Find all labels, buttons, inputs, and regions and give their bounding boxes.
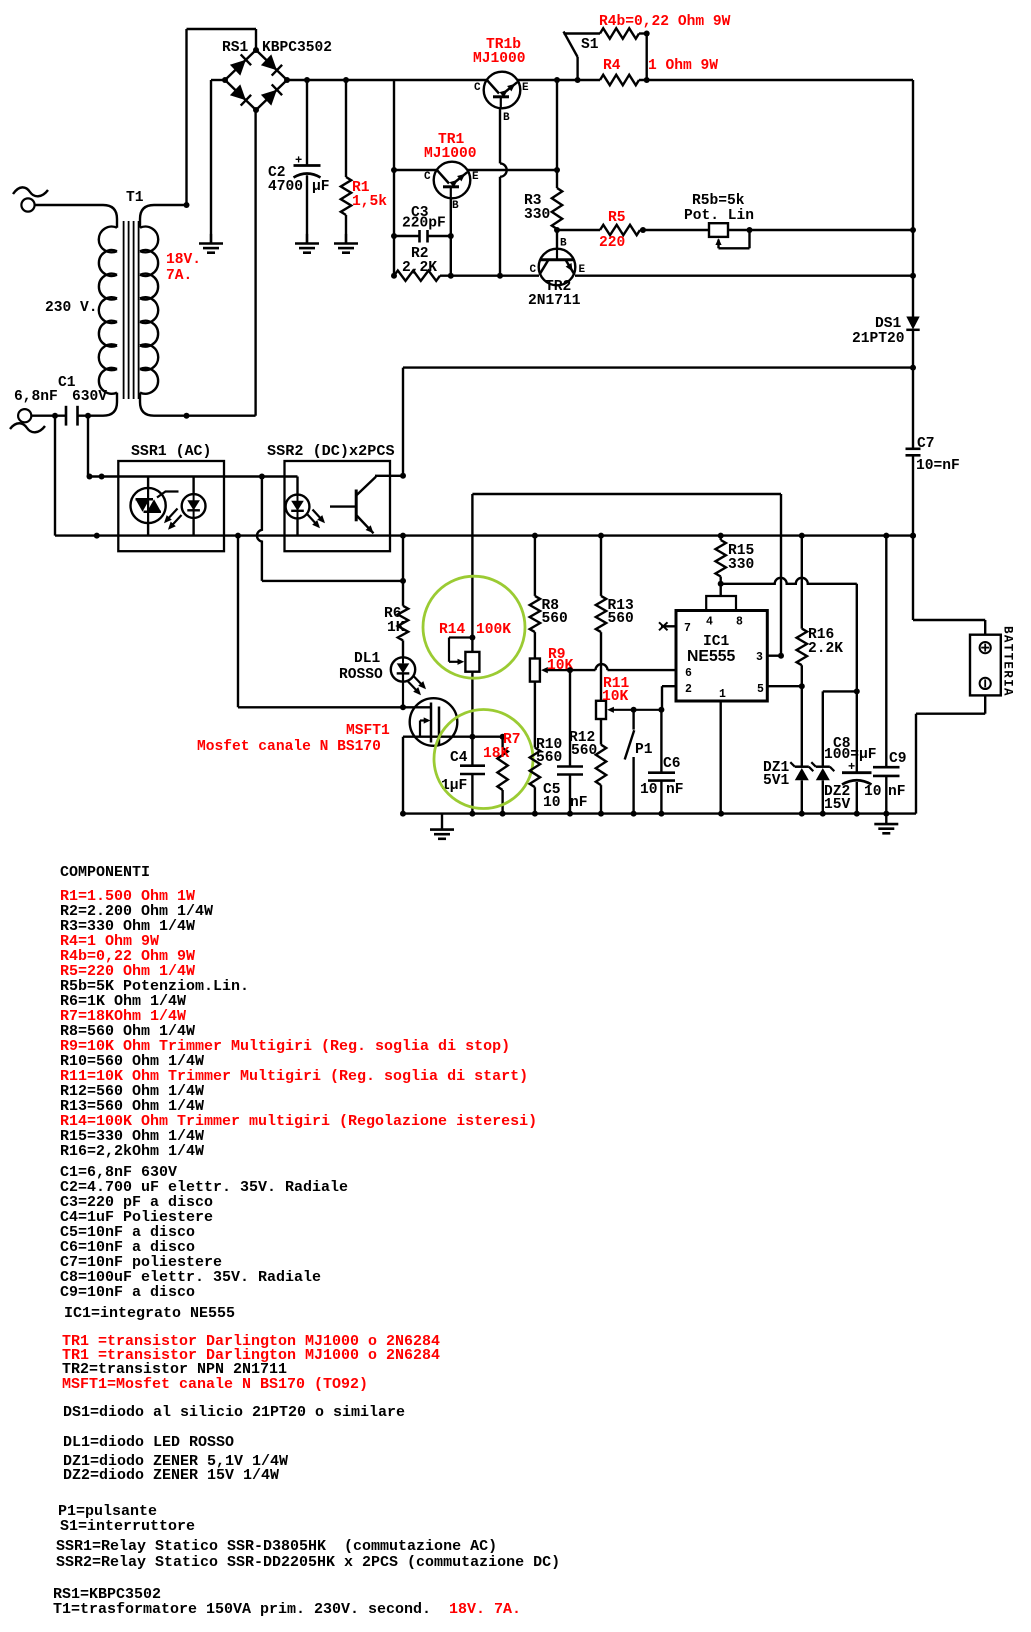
resistor R8 — [530, 536, 540, 659]
label SSR2 — [267, 442, 395, 460]
bridge rectifier RS1 — [222, 47, 290, 113]
pin 4 — [706, 616, 713, 629]
ground (main) — [430, 814, 454, 839]
label TR2 pins — [530, 238, 586, 277]
label R14 — [439, 622, 511, 638]
wire SSR1 control — [257, 477, 406, 584]
label R13 value — [608, 598, 635, 627]
label R8 value — [542, 598, 568, 627]
label TR1 pins — [424, 171, 479, 212]
label IC1 — [703, 634, 730, 650]
label S1 — [581, 37, 599, 53]
LED (SSR1 input) — [164, 477, 206, 536]
ground (C2) — [295, 234, 319, 253]
pin 1 — [719, 688, 726, 814]
label R5 — [599, 210, 626, 251]
wire mains to SSR1 bottom — [55, 416, 118, 539]
label C6 — [640, 756, 684, 798]
label DZ2 — [824, 784, 851, 813]
relay SSR1 box — [118, 461, 224, 551]
label C9 — [864, 751, 907, 800]
label BATTERIA — [1001, 626, 1015, 697]
label NE555 — [687, 648, 736, 665]
wire R9 to R10 — [534, 682, 536, 748]
wire bridge minus — [211, 80, 225, 244]
wire SSR1 rails — [118, 474, 916, 539]
trimmer R14 — [449, 635, 479, 672]
resistor R3 — [552, 188, 562, 233]
label R16 value — [808, 627, 843, 657]
wire charge line — [403, 368, 913, 476]
highlight circle R14 — [423, 576, 525, 678]
label RS1 KBPC3502 — [222, 40, 332, 56]
label C8 — [824, 736, 877, 774]
label R12 value — [569, 730, 597, 759]
label R11 — [602, 676, 630, 705]
transformer T1 — [35, 110, 256, 419]
capacitor C2 — [294, 80, 321, 244]
ground (R1) — [334, 234, 358, 253]
label T1 secondary — [166, 252, 201, 284]
resistor R6 — [398, 606, 408, 658]
ground (bridge minus) — [199, 234, 223, 253]
wire R14 to C4 — [471, 672, 473, 766]
battery BATTERIA — [970, 635, 1001, 696]
label C5 — [543, 782, 588, 811]
capacitor C3 — [394, 230, 454, 243]
wire TR2 emitter line — [575, 273, 916, 279]
wire output rail — [910, 80, 985, 635]
capacitor C6 — [648, 710, 675, 814]
label T1 primary — [45, 300, 98, 316]
label R4b — [599, 14, 731, 30]
wire +V to TR1 — [391, 80, 397, 279]
wire gate run — [238, 536, 406, 711]
pin 8 — [736, 616, 743, 629]
pin 6 — [685, 667, 692, 680]
label R2 value — [402, 246, 437, 276]
wire output to R3 — [556, 80, 558, 188]
label R4 — [603, 58, 718, 74]
resistor R7 — [497, 737, 507, 814]
label C7 — [916, 436, 960, 474]
wire TR1b base — [497, 108, 507, 279]
label T1 — [126, 190, 144, 206]
label SSR1 — [131, 444, 211, 460]
label R3 value — [524, 193, 550, 223]
capacitor C9 — [873, 536, 900, 814]
trimmer R9 — [530, 659, 570, 682]
capacitor C5 — [557, 670, 583, 814]
label R9 — [547, 647, 574, 674]
label P1 — [635, 742, 653, 758]
pin 2 — [662, 683, 692, 710]
wire mains to SSR1 top — [87, 416, 119, 480]
wire battery return — [916, 695, 985, 813]
capacitor C1 — [31, 406, 91, 426]
resistor R2 — [394, 271, 539, 281]
mosfet MSFT1 — [403, 698, 503, 746]
relay SSR2 box — [285, 461, 391, 551]
wire pin6 line — [567, 664, 676, 673]
label C4 — [441, 750, 468, 794]
capacitor C8 — [842, 691, 872, 813]
wire SSR2 collector out — [390, 473, 406, 479]
resistor R10 — [530, 748, 540, 814]
resistor R1 — [341, 80, 351, 244]
wire MOSFET source — [403, 734, 506, 814]
triac (SSR1 output) — [131, 477, 179, 536]
LED DL1 — [391, 657, 426, 707]
wire R11 to R12 — [600, 719, 602, 745]
label MSFT1 — [197, 723, 390, 755]
label TR2 — [528, 279, 581, 309]
zener DZ1 — [790, 686, 813, 813]
pin 3 — [756, 651, 784, 664]
label DL1 — [339, 651, 383, 683]
label C1 — [14, 375, 107, 405]
wire bridge top AC input — [187, 29, 257, 205]
transistor TR1 — [434, 162, 471, 199]
label C2 value — [268, 154, 330, 196]
label DS1 — [852, 316, 905, 347]
label DZ1 — [763, 760, 790, 789]
label C3 value — [402, 205, 446, 232]
highlight circle R7 C4 — [434, 710, 533, 809]
potentiometer R5b — [709, 223, 753, 248]
wire SSR2 input — [262, 475, 298, 477]
label TR1b pins — [474, 82, 529, 124]
phototransistor (SSR2 output) — [330, 476, 390, 534]
label R15 value — [728, 543, 754, 573]
AC terminal 1 — [13, 187, 48, 211]
label TR1 — [424, 132, 477, 162]
wire +V bus — [287, 77, 913, 83]
ground (right) — [874, 814, 898, 834]
wire TR1 collector line — [394, 167, 560, 173]
wire TR1 base — [448, 198, 454, 279]
label R10 value — [536, 737, 562, 766]
resistor R12 — [596, 745, 606, 814]
pin 7 — [659, 622, 691, 635]
resistor R13 — [596, 536, 606, 701]
switch S1 — [564, 32, 578, 81]
label R1 value — [352, 180, 387, 210]
label R6 value — [384, 606, 405, 636]
push button P1 — [625, 710, 635, 814]
label R5b — [684, 193, 754, 224]
pin 5 — [757, 683, 805, 696]
transistor TR2 — [539, 230, 576, 285]
wire pin3 feedback — [472, 494, 781, 656]
zener DZ2 — [811, 691, 857, 813]
trimmer R11 — [596, 701, 664, 719]
resistor R5 — [600, 225, 640, 235]
AC terminal 2 — [10, 409, 45, 432]
wire ground bus — [400, 811, 916, 817]
wire zener reference — [721, 578, 860, 695]
capacitor C4 — [460, 766, 485, 814]
resistor R4 — [600, 75, 639, 85]
capacitor C7 — [906, 449, 921, 456]
IC U1 NE555 box — [676, 584, 767, 701]
wire Vcc column — [402, 536, 404, 606]
label R7 — [483, 732, 521, 762]
resistor R4b — [564, 28, 650, 80]
wire R5 line — [557, 227, 916, 233]
LED (SSR2 input) — [286, 477, 325, 536]
label TR1b — [473, 37, 526, 67]
diode DS1 — [906, 317, 919, 330]
resistor R15 — [716, 536, 726, 587]
transistor TR1b — [484, 72, 521, 109]
resistor R16 — [797, 536, 807, 687]
